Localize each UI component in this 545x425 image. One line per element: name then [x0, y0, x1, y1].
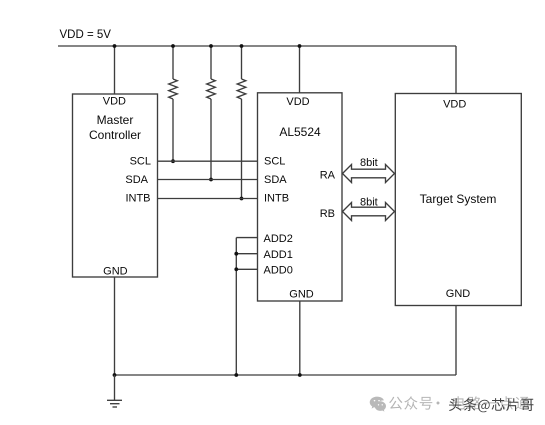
svg-text:ADD1: ADD1 — [264, 249, 293, 261]
junction dot rail/AL5524 VDD — [298, 44, 302, 48]
junction dot R2/SDA — [209, 178, 213, 182]
junction dot ground/AL5524 — [298, 373, 302, 377]
svg-text:AL5524: AL5524 — [279, 125, 321, 139]
svg-text:GND: GND — [289, 289, 314, 301]
wire AL5524 VDD drop — [299, 46, 301, 93]
wire Target GND drop — [455, 306, 457, 376]
svg-text:RB: RB — [320, 208, 335, 220]
junction dot ground/Master — [113, 373, 117, 377]
svg-text:ADD2: ADD2 — [264, 233, 293, 245]
svg-text:RA: RA — [320, 170, 336, 182]
wire Master GND drop — [114, 277, 116, 375]
svg-text:Controller: Controller — [89, 128, 141, 142]
svg-text:Target System: Target System — [420, 192, 497, 206]
junction dot R1/SCL — [171, 159, 175, 163]
watermark wechat icon — [370, 397, 386, 412]
junction dot rail/R3 — [240, 44, 244, 48]
wire ADD chain to ground — [235, 238, 237, 375]
bus arrow RB 8bit — [343, 203, 395, 221]
junction dot rail/R1 — [171, 44, 175, 48]
svg-text:GND: GND — [103, 266, 128, 278]
svg-text:8bit: 8bit — [360, 157, 378, 169]
svg-text:SDA: SDA — [264, 174, 287, 186]
svg-text:VDD: VDD — [443, 99, 466, 111]
svg-text:SCL: SCL — [130, 156, 151, 168]
resistor R1 pull-up SCL — [169, 46, 178, 161]
junction dot ADD0 — [234, 267, 238, 271]
svg-text:INTB: INTB — [264, 193, 289, 205]
svg-text:SDA: SDA — [125, 174, 148, 186]
junction dot ADD1 — [234, 252, 238, 256]
resistor R3 pull-up INTB — [237, 46, 246, 199]
junction dot R3/INTB — [240, 197, 244, 201]
block AL5524 — [258, 93, 343, 301]
resistor R2 pull-up SDA — [207, 46, 216, 180]
svg-text:Master: Master — [97, 113, 134, 127]
wire VDD rail — [58, 45, 456, 47]
block Target System — [395, 94, 521, 306]
wire SCL — [158, 160, 258, 162]
bus arrow RA 8bit — [343, 165, 395, 183]
svg-text:GND: GND — [446, 288, 471, 300]
svg-text:VDD: VDD — [286, 96, 309, 108]
svg-text:8bit: 8bit — [360, 196, 378, 208]
junction dot rail/Master VDD — [113, 44, 117, 48]
wire INTB — [158, 198, 258, 200]
junction dot ground/ADD chain — [234, 373, 238, 377]
svg-text:INTB: INTB — [125, 192, 150, 204]
svg-text:ADD0: ADD0 — [264, 265, 293, 277]
svg-text:VDD: VDD — [103, 96, 126, 108]
wire SDA — [158, 179, 258, 181]
block Master Controller — [73, 94, 158, 277]
svg-text:SCL: SCL — [264, 156, 285, 168]
wire ADD1 — [236, 253, 257, 255]
wire AL5524 GND drop — [299, 301, 301, 375]
wire Master VDD drop — [114, 46, 116, 94]
junction dot rail/R2 — [209, 44, 213, 48]
wire ADD2 — [236, 237, 257, 239]
wire ground rail — [115, 374, 457, 376]
svg-text:VDD = 5V: VDD = 5V — [60, 29, 112, 41]
wire Target VDD drop — [455, 46, 457, 94]
watermark light text 公众号 · 电路一点通 (vector strokes) — [389, 396, 529, 410]
ground symbol — [107, 375, 122, 407]
wire ADD0 — [236, 268, 257, 270]
watermark dark text 头条@芯片哥 (vector strokes) — [449, 398, 534, 412]
